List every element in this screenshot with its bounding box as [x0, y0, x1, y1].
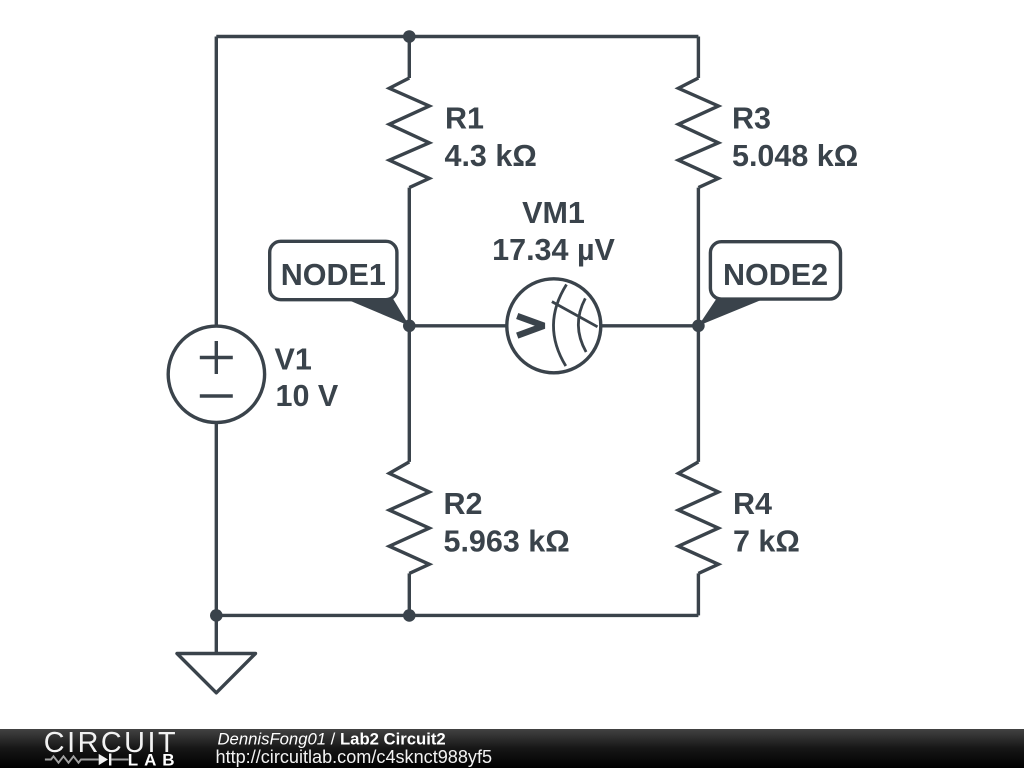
ground: [177, 615, 256, 692]
svg-text:7 kΩ: 7 kΩ: [733, 525, 800, 559]
svg-text:17.34 µV: 17.34 µV: [492, 233, 615, 267]
resistor R1: [389, 78, 429, 188]
wire top horizontal: [216, 35, 698, 38]
wire R1 bottom lead to NODE1: [408, 188, 411, 326]
svg-text:NODE1: NODE1: [281, 258, 386, 292]
node label NODE2 box: [710, 242, 840, 299]
wire voltmeter left lead: [409, 324, 507, 327]
voltage source V1: [168, 326, 264, 422]
label R2 designator: [444, 487, 483, 521]
wire R3 bottom lead to NODE2: [697, 188, 700, 326]
label R4 value: [733, 525, 800, 559]
wire left vertical lower (V1 bottom to bottom rail): [215, 422, 218, 615]
wire R2 bottom lead: [408, 573, 411, 615]
label R1 designator: [445, 102, 484, 136]
label VM1 designator: [522, 196, 585, 230]
CircuitLab logo CIRCUIT text: [44, 727, 178, 759]
footer text line 1: [218, 730, 446, 749]
label R1 value: [445, 139, 537, 173]
wire R2 top lead from NODE1: [408, 326, 411, 462]
junction dot bottom R2: [403, 609, 416, 622]
voltmeter VM1: [507, 279, 601, 373]
resistor R4: [678, 462, 718, 574]
svg-text:R1: R1: [445, 102, 484, 136]
svg-text:4.3 kΩ: 4.3 kΩ: [445, 139, 537, 173]
node label NODE2 text: [723, 258, 828, 292]
wire R3 branch top lead: [697, 37, 700, 79]
wire left vertical upper (to V1 top): [215, 37, 218, 327]
label R3 value: [732, 139, 858, 173]
svg-text:LAB: LAB: [128, 751, 181, 768]
svg-text:R3: R3: [732, 102, 771, 136]
node label NODE1 text: [281, 258, 386, 292]
svg-text:10 V: 10 V: [276, 379, 339, 413]
wire R1 branch top lead: [408, 37, 411, 79]
svg-text:DennisFong01 / Lab2 Circuit2: DennisFong01 / Lab2 Circuit2: [218, 730, 446, 749]
label VM1 value: [492, 233, 615, 267]
label V1 designator: [275, 343, 312, 377]
node label NODE1 pointer wedge: [345, 299, 409, 326]
wire R4 top lead from NODE2: [697, 326, 700, 462]
wire voltmeter right lead: [601, 324, 699, 327]
node label NODE2 pointer wedge: [698, 299, 764, 326]
CircuitLab logo LAB text: [128, 751, 181, 768]
resistor R3: [678, 78, 718, 188]
label V1 value: [276, 379, 339, 413]
wire R4 bottom lead: [697, 573, 700, 615]
svg-text:R4: R4: [733, 487, 772, 521]
resistor R2: [389, 462, 429, 574]
footer text line 2: [216, 747, 493, 767]
label R3 designator: [732, 102, 771, 136]
node label NODE1 box: [270, 241, 397, 299]
svg-text:http://circuitlab.com/c4sknct9: http://circuitlab.com/c4sknct988yf5: [216, 747, 493, 767]
svg-text:5.963 kΩ: 5.963 kΩ: [444, 525, 570, 559]
CircuitLab logo diode: [99, 754, 111, 766]
svg-text:VM1: VM1: [522, 196, 585, 230]
junction dot NODE1: [403, 320, 416, 333]
svg-text:NODE2: NODE2: [723, 258, 828, 292]
svg-text:V1: V1: [275, 343, 312, 377]
junction dot bottom left: [210, 609, 223, 622]
junction dot NODE2: [692, 320, 705, 333]
CircuitLab logo resistor zigzag: [45, 756, 129, 762]
wire bottom horizontal: [216, 614, 698, 617]
svg-text:R2: R2: [444, 487, 483, 521]
junction dot top (node A): [403, 30, 416, 43]
footer brand bar: [0, 729, 1024, 768]
label R2 value: [444, 525, 570, 559]
label R4 designator: [733, 487, 772, 521]
svg-text:5.048 kΩ: 5.048 kΩ: [732, 139, 858, 173]
